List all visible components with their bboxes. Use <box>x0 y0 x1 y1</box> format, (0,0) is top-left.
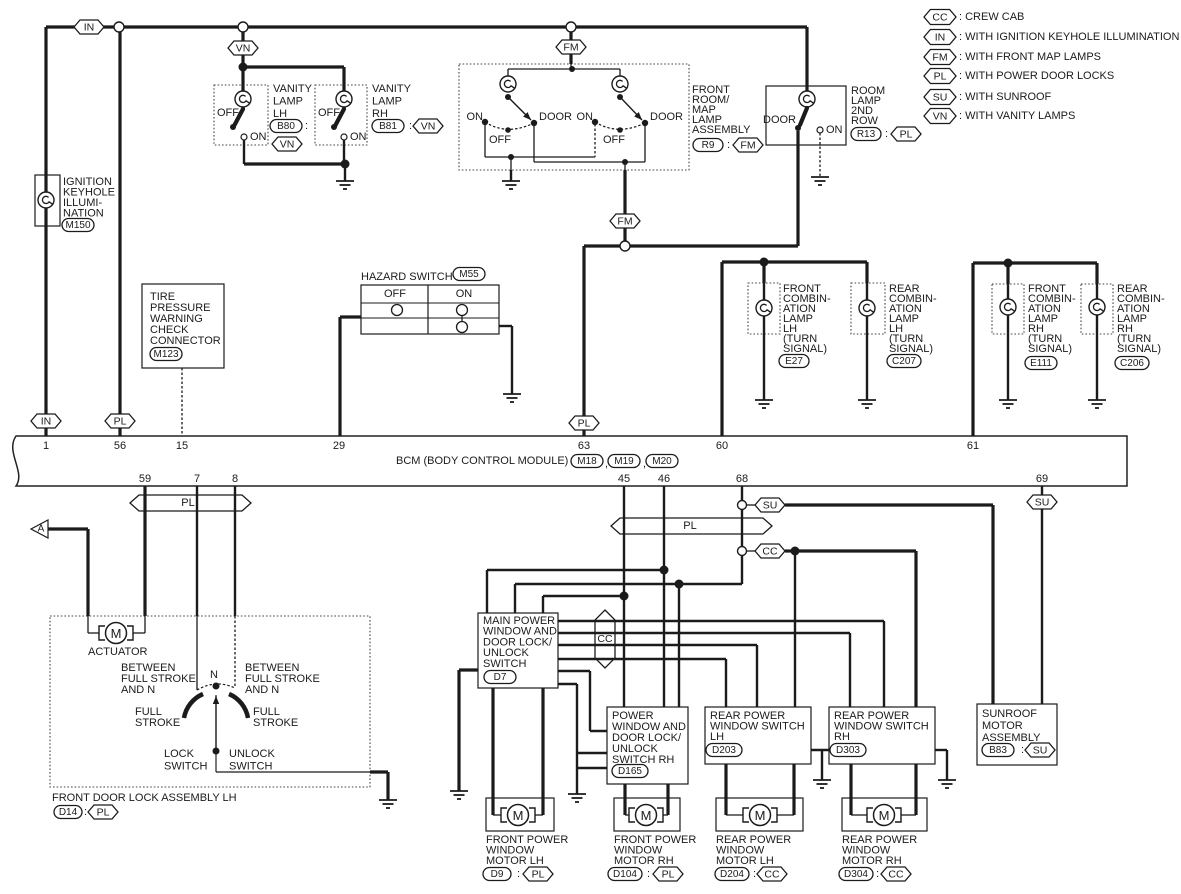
svg-text:DOOR: DOOR <box>763 114 796 126</box>
svg-text:B83: B83 <box>989 745 1007 756</box>
svg-text:B81: B81 <box>379 121 397 132</box>
svg-text:OFF: OFF <box>384 288 406 300</box>
svg-text:ON: ON <box>826 124 843 136</box>
svg-text:LOCK: LOCK <box>164 748 195 760</box>
svg-text:FM: FM <box>563 42 578 54</box>
svg-text:ACTUATOR: ACTUATOR <box>88 646 148 658</box>
svg-text:AND N: AND N <box>121 684 155 696</box>
svg-text:: CREW CAB: : CREW CAB <box>959 11 1024 23</box>
svg-text:M: M <box>111 626 122 641</box>
svg-text:OFF: OFF <box>217 107 239 119</box>
svg-text:ON: ON <box>577 111 594 123</box>
svg-text::: : <box>753 868 756 880</box>
svg-text:M: M <box>641 808 652 823</box>
svg-text:M: M <box>755 808 766 823</box>
svg-text:15: 15 <box>176 440 188 452</box>
svg-text:PL: PL <box>662 869 675 881</box>
svg-text:M123: M123 <box>153 349 178 360</box>
svg-text:D14: D14 <box>59 807 78 818</box>
svg-text:SUNROOF: SUNROOF <box>982 708 1037 720</box>
svg-text:SIGNAL): SIGNAL) <box>783 343 827 355</box>
svg-text::: : <box>647 868 650 880</box>
svg-text:PL: PL <box>181 497 194 509</box>
svg-text:FM: FM <box>617 216 632 228</box>
svg-text:A: A <box>38 524 45 535</box>
svg-text:PL: PL <box>578 418 591 430</box>
svg-text:OFF: OFF <box>489 134 511 146</box>
svg-text:CC: CC <box>888 869 904 881</box>
svg-text:R13: R13 <box>857 129 876 140</box>
svg-text:ON: ON <box>467 111 484 123</box>
svg-text:SIGNAL): SIGNAL) <box>889 343 933 355</box>
svg-text:E27: E27 <box>785 356 803 367</box>
svg-text:RH: RH <box>834 731 850 743</box>
svg-text:IN: IN <box>84 22 95 34</box>
svg-text:ON: ON <box>250 131 267 143</box>
svg-text:D304: D304 <box>844 869 868 880</box>
svg-text:VANITY: VANITY <box>273 83 313 95</box>
svg-text:ASSEMBLY: ASSEMBLY <box>982 732 1041 744</box>
svg-text:DOOR: DOOR <box>539 111 572 123</box>
svg-text:SWITCH: SWITCH <box>229 761 272 773</box>
svg-text:WINDOW SWITCH: WINDOW SWITCH <box>710 721 805 733</box>
svg-text:MOTOR RH: MOTOR RH <box>614 855 674 867</box>
svg-text:SU: SU <box>1035 497 1050 509</box>
svg-text:VN: VN <box>933 111 948 123</box>
svg-text:C207: C207 <box>892 356 916 367</box>
svg-text:CC: CC <box>762 546 778 558</box>
svg-text:SWITCH: SWITCH <box>164 761 207 773</box>
svg-text:RH: RH <box>372 108 388 120</box>
svg-text:ON: ON <box>350 131 367 143</box>
svg-text::: : <box>727 139 730 151</box>
svg-text:D7: D7 <box>494 672 507 683</box>
svg-text:R9: R9 <box>702 140 715 151</box>
svg-text:CONNECTOR: CONNECTOR <box>150 335 221 347</box>
svg-text::: : <box>885 128 888 140</box>
svg-text::: : <box>84 806 87 818</box>
svg-text:60: 60 <box>716 440 728 452</box>
svg-text:VN: VN <box>280 139 295 151</box>
svg-text:LH: LH <box>273 108 287 120</box>
svg-text:C206: C206 <box>1120 358 1144 369</box>
svg-text:D203: D203 <box>712 745 736 756</box>
svg-text:NATION: NATION <box>63 208 104 220</box>
svg-text:69: 69 <box>1036 473 1048 485</box>
svg-text:PL: PL <box>934 71 947 83</box>
svg-text:PL: PL <box>683 520 696 532</box>
svg-text:ASSEMBLY: ASSEMBLY <box>692 124 751 136</box>
svg-text:SU: SU <box>933 92 948 104</box>
svg-text:ROW: ROW <box>851 115 879 127</box>
svg-text:M150: M150 <box>65 220 90 231</box>
svg-text:: WITH SUNROOF: : WITH SUNROOF <box>959 91 1052 103</box>
svg-text:FM: FM <box>932 52 947 64</box>
svg-text:D9: D9 <box>491 869 504 880</box>
svg-text:,: , <box>643 458 646 470</box>
svg-text:PL: PL <box>97 807 110 819</box>
svg-text:STROKE: STROKE <box>253 717 298 729</box>
svg-text:MOTOR RH: MOTOR RH <box>842 855 902 867</box>
svg-text:SIGNAL): SIGNAL) <box>1028 343 1072 355</box>
svg-text:HAZARD SWITCH: HAZARD SWITCH <box>361 271 453 283</box>
svg-text:OFF: OFF <box>318 107 340 119</box>
svg-text:UNLOCK: UNLOCK <box>229 748 276 760</box>
svg-text:CC: CC <box>932 12 948 24</box>
svg-text:46: 46 <box>658 473 670 485</box>
svg-text:SU: SU <box>763 500 778 512</box>
svg-text:FM: FM <box>740 140 755 152</box>
svg-text::: : <box>517 868 520 880</box>
svg-text:M: M <box>879 808 890 823</box>
svg-text::: : <box>1021 744 1024 756</box>
svg-text:N: N <box>210 669 218 681</box>
svg-text:M19: M19 <box>614 456 634 467</box>
svg-text:PL: PL <box>114 416 127 428</box>
svg-text::: : <box>409 120 412 132</box>
svg-text:: WITH FRONT MAP LAMPS: : WITH FRONT MAP LAMPS <box>959 51 1101 63</box>
svg-text:PL: PL <box>532 869 545 881</box>
svg-text:IN: IN <box>41 416 52 428</box>
svg-text:B80: B80 <box>277 121 295 132</box>
svg-text:MOTOR LH: MOTOR LH <box>486 855 544 867</box>
svg-text:: WITH VANITY LAMPS: : WITH VANITY LAMPS <box>959 110 1075 122</box>
svg-text:D303: D303 <box>836 745 860 756</box>
svg-text:SIGNAL): SIGNAL) <box>1117 343 1161 355</box>
svg-text:29: 29 <box>333 440 345 452</box>
svg-text:PL: PL <box>900 129 913 141</box>
svg-text:CC: CC <box>597 633 613 645</box>
svg-text:VN: VN <box>236 43 251 55</box>
svg-text:LAMP: LAMP <box>372 96 402 108</box>
svg-text:SU: SU <box>1033 745 1048 757</box>
svg-text:OFF: OFF <box>603 134 625 146</box>
svg-text:VN: VN <box>421 121 436 133</box>
svg-text:FRONT DOOR LOCK ASSEMBLY LH: FRONT DOOR LOCK ASSEMBLY LH <box>52 792 237 804</box>
svg-text:63: 63 <box>578 440 590 452</box>
svg-text:M20: M20 <box>652 456 672 467</box>
svg-text:59: 59 <box>139 473 151 485</box>
svg-text:1: 1 <box>43 440 49 452</box>
svg-text:LAMP: LAMP <box>273 96 303 108</box>
svg-text::: : <box>305 120 308 132</box>
svg-text:56: 56 <box>114 440 126 452</box>
svg-text:SWITCH: SWITCH <box>483 658 526 670</box>
svg-text:MOTOR: MOTOR <box>982 720 1023 732</box>
svg-text:: WITH POWER DOOR LOCKS: : WITH POWER DOOR LOCKS <box>959 70 1114 82</box>
svg-text:61: 61 <box>967 440 979 452</box>
svg-text:VANITY: VANITY <box>372 83 412 95</box>
svg-text:CC: CC <box>764 869 780 881</box>
svg-text:7: 7 <box>194 473 200 485</box>
svg-text:SWITCH RH: SWITCH RH <box>612 754 674 766</box>
svg-text:IN: IN <box>935 32 946 44</box>
svg-text:BCM (BODY CONTROL MODULE): BCM (BODY CONTROL MODULE) <box>396 455 568 467</box>
svg-text::: : <box>876 868 879 880</box>
svg-text:ON: ON <box>456 288 473 300</box>
svg-text:D104: D104 <box>613 869 637 880</box>
svg-text:M: M <box>513 808 524 823</box>
svg-text:D165: D165 <box>618 766 642 777</box>
svg-text:AND N: AND N <box>245 684 279 696</box>
svg-text:LH: LH <box>710 731 724 743</box>
svg-text:68: 68 <box>736 473 748 485</box>
svg-text:D204: D204 <box>720 869 744 880</box>
svg-text:45: 45 <box>618 473 630 485</box>
svg-text:: WITH IGNITION KEYHOLE ILLUMI: : WITH IGNITION KEYHOLE ILLUMINATION <box>959 31 1179 43</box>
svg-text:M18: M18 <box>577 456 597 467</box>
svg-text:DOOR: DOOR <box>650 111 683 123</box>
svg-text:,: , <box>605 458 608 470</box>
svg-text:E111: E111 <box>1030 358 1052 369</box>
svg-text:M55: M55 <box>459 269 479 280</box>
svg-text:STROKE: STROKE <box>135 717 180 729</box>
svg-text:8: 8 <box>232 473 238 485</box>
svg-text:MOTOR LH: MOTOR LH <box>716 855 774 867</box>
